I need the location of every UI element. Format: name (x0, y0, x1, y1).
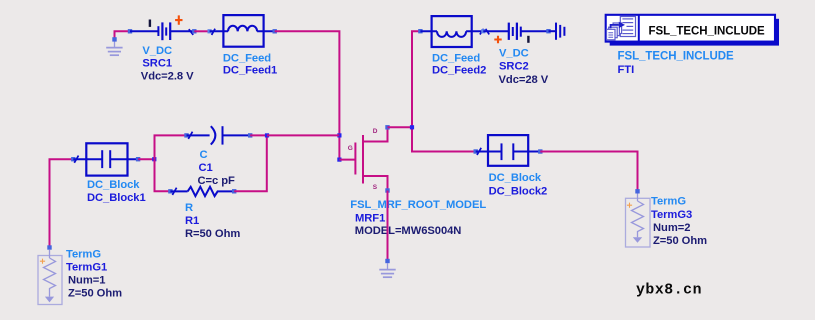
component FSL_TECH_INCLUDE block (606, 15, 775, 42)
svg-text:MODEL=MW6S004N: MODEL=MW6S004N (355, 225, 462, 237)
node: TermG1 pin (47, 245, 51, 249)
inductor DC_Feed1 (210, 15, 275, 47)
svg-text:V_DC: V_DC (142, 45, 172, 57)
DC source V_DC SRC1 (battery) (130, 22, 194, 40)
wire: junction to gate node (338, 135, 340, 159)
DC source V_DC SRC2 (battery, mirrored) (483, 23, 548, 40)
node: R1 pin2 (232, 189, 236, 193)
svg-text:DC_Feed: DC_Feed (223, 52, 271, 64)
svg-text:DC_Block: DC_Block (489, 172, 542, 184)
wire: DC_Feed2 pin1 down to drain junction (412, 31, 420, 127)
icon: FSL_TECH_INCLUDE arrow (611, 22, 625, 29)
node: DC_Feed2 pin1 (418, 29, 422, 33)
svg-text:D: D (373, 128, 378, 135)
wire: junction down to R1 branch (155, 159, 171, 191)
node: MRF1 source pin (385, 188, 389, 192)
svg-text:C: C (200, 149, 208, 161)
junction: RC split (152, 157, 156, 161)
wire: rejoin junction to gate rail junction (267, 134, 339, 136)
wire: SRC1 to DC_Feed1 (194, 30, 209, 32)
label: SRC2 plus sign (494, 36, 501, 43)
node: SRC2 pin2 (546, 29, 550, 33)
svg-text:TermG: TermG (651, 195, 686, 207)
svg-text:R=50 Ohm: R=50 Ohm (185, 228, 240, 240)
terminal TermG1 (38, 250, 62, 305)
label: SRC1 current arrow I (149, 20, 151, 27)
svg-text:DC_Block: DC_Block (87, 179, 140, 191)
svg-text:S: S (373, 184, 378, 191)
node: SRC1 pin2 (192, 29, 196, 33)
svg-text:FSL_MRF_ROOT_MODEL: FSL_MRF_ROOT_MODEL (350, 199, 486, 211)
node: TermG3 pin (635, 189, 639, 193)
svg-text:Vdc=2.8 V: Vdc=2.8 V (141, 71, 194, 83)
wire: DC_Feed1 to gate rail (top rail, down to junction) (275, 31, 340, 135)
terminal TermG3 (626, 194, 651, 248)
wire: DC_Block2 to TermG3 (540, 152, 637, 192)
transistor MRF1 (FET symbol) (339, 127, 387, 190)
capacitor DC_Block1 (73, 143, 138, 175)
wire: MRF1 source to ground (387, 191, 389, 262)
svg-text:SRC2: SRC2 (499, 60, 529, 72)
ground GND3 (SRC2, rotated right) (549, 23, 565, 40)
svg-text:DC_Feed1: DC_Feed1 (223, 65, 277, 77)
inductor DC_Feed2 (mirrored) (420, 16, 489, 47)
svg-text:Vdc=28 V: Vdc=28 V (499, 74, 549, 86)
node: DC_Feed1 pin2 (273, 29, 277, 33)
svg-text:DC_Feed: DC_Feed (432, 52, 480, 64)
label: TermG1 plus sign (40, 259, 45, 264)
svg-text:DC_Feed2: DC_Feed2 (432, 65, 486, 77)
node: DC_Block1 pin1 (71, 157, 75, 161)
node: R1 pin1 (168, 189, 172, 193)
node: MRF1 gate (337, 158, 341, 162)
node: SRC1 pin1 (128, 29, 132, 33)
svg-text:R: R (185, 202, 193, 214)
wire: GND1 to SRC1 pin1 (115, 31, 131, 39)
ground GND2 (MRF1 source) (379, 263, 395, 277)
label: SRC2 current arrow I (527, 36, 529, 43)
wire: C1 to rejoin junction (250, 134, 267, 136)
resistor R1 (170, 187, 234, 196)
node: source ground pin (385, 259, 389, 263)
svg-text:MRF1: MRF1 (355, 212, 385, 224)
svg-text:DC_Block2: DC_Block2 (489, 185, 548, 197)
node: DC_Block1 pin2 (136, 157, 140, 161)
ground GND1 (SRC1 ground) (106, 42, 122, 56)
wire: TermG1 up to DC_Block1 (50, 159, 74, 247)
capacitor C1 (187, 126, 251, 144)
node: MRF1 drain pin (385, 125, 389, 129)
svg-text:C1: C1 (199, 162, 213, 174)
node: DC_Block2 pin1 (474, 149, 478, 153)
svg-text:FSL_TECH_INCLUDE: FSL_TECH_INCLUDE (618, 50, 735, 62)
svg-text:TermG3: TermG3 (651, 209, 692, 221)
wire: DC_Block1 to RC junction (138, 158, 154, 160)
svg-text:TermG1: TermG1 (66, 262, 107, 274)
svg-text:FTI: FTI (618, 64, 635, 76)
svg-text:Num=2: Num=2 (653, 222, 690, 234)
junction: drain node (410, 125, 414, 129)
svg-text:Z=50 Ohm: Z=50 Ohm (68, 288, 122, 300)
node: GND1 pin (112, 37, 116, 41)
node: C1 pin1 (184, 133, 188, 137)
svg-text:ybx8.cn: ybx8.cn (636, 283, 702, 299)
wire: R1 up to rejoin junction (234, 135, 267, 191)
svg-text:SRC1: SRC1 (142, 58, 172, 70)
label: TermG3 plus sign (627, 203, 632, 208)
node: DC_Block2 pin2 (538, 149, 542, 153)
junction: C1/R1 rejoin (265, 133, 269, 137)
capacitor DC_Block2 (476, 135, 541, 166)
wire: drain junction down to DC_Block2 (412, 127, 476, 151)
node: C1 pin2 (248, 133, 252, 137)
node: DC_Feed2 pin2 / SRC2 pin1 (481, 29, 485, 33)
node: DC_Feed1 pin1 (208, 29, 212, 33)
svg-text:R1: R1 (185, 215, 199, 227)
component FSL_TECH_INCLUDE block shadow (610, 19, 779, 46)
wire: junction up to C1 branch (155, 135, 187, 159)
svg-text:DC_Block1: DC_Block1 (87, 192, 146, 204)
svg-text:FSL_TECH_INCLUDE: FSL_TECH_INCLUDE (649, 26, 766, 38)
svg-text:C=c pF: C=c pF (198, 175, 236, 187)
label: SRC1 plus sign (175, 15, 182, 24)
svg-text:V_DC: V_DC (499, 48, 529, 60)
svg-text:Num=1: Num=1 (68, 275, 105, 287)
svg-text:G: G (348, 145, 353, 152)
junction: gate rail / RC network (337, 133, 341, 137)
icon: FSL_TECH_INCLUDE document stack (607, 17, 636, 40)
svg-text:Z=50 Ohm: Z=50 Ohm (653, 235, 707, 247)
svg-text:TermG: TermG (66, 249, 101, 261)
wire: drain junction to MRF1 drain (388, 126, 413, 128)
